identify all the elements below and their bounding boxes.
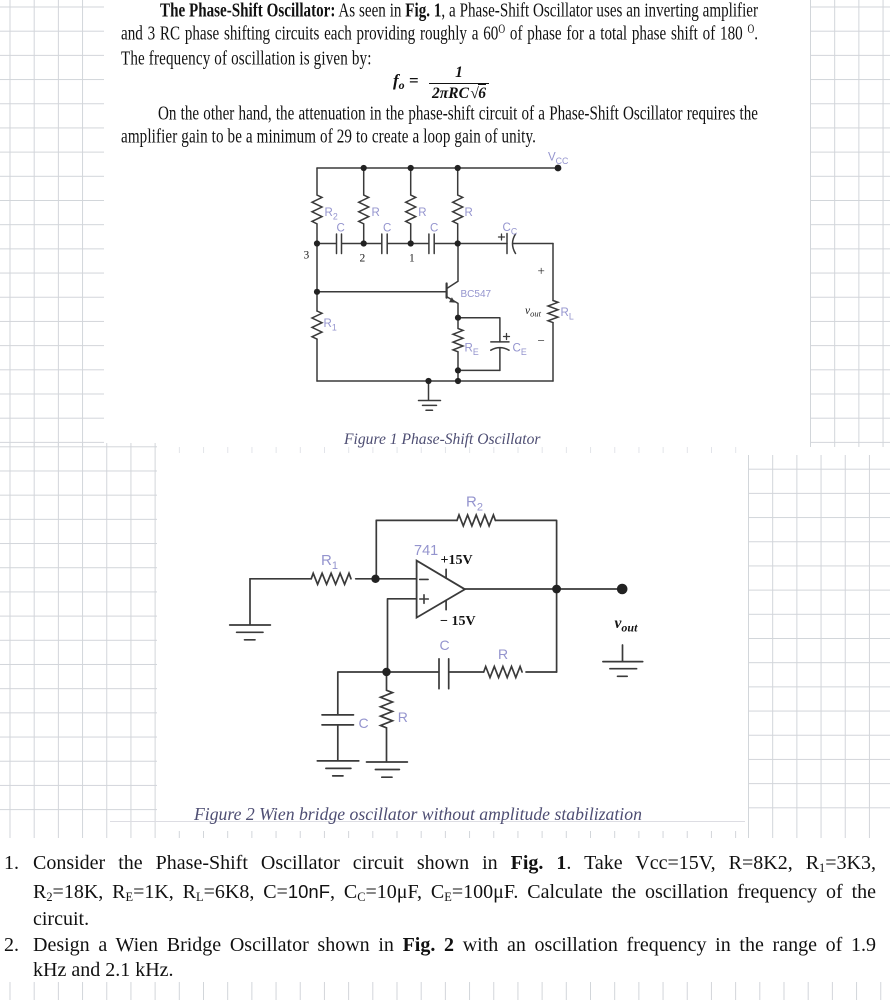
resistor R (branch 0) — [453, 168, 463, 244]
resistor R2 — [312, 168, 322, 244]
ground under C — [317, 761, 359, 776]
svg-text:−: − — [538, 333, 545, 348]
node dot top 0 — [455, 165, 461, 171]
graph paper: bottom tick band — [0, 982, 890, 1000]
resistor R1 — [312, 311, 322, 339]
graph paper: mid-left — [0, 443, 157, 831]
node dot inverting — [371, 575, 379, 583]
svg-text:R1: R1 — [324, 318, 337, 333]
node dot RE bottom — [455, 367, 461, 373]
wire base — [317, 291, 446, 293]
node dot output end — [617, 584, 628, 595]
svg-text:R: R — [372, 207, 380, 219]
faint tick row between pieces — [160, 447, 748, 453]
node dot bottom — [382, 668, 390, 676]
wire inverting input — [356, 578, 417, 580]
svg-text:2: 2 — [360, 253, 366, 265]
node dot output — [552, 585, 561, 594]
wire left branch — [316, 244, 318, 312]
svg-text:BC547: BC547 — [461, 289, 492, 300]
wire cap to node — [387, 671, 439, 673]
svg-text:CE: CE — [513, 343, 527, 358]
figure 2 caption — [194, 804, 642, 825]
plus sign of CE — [504, 334, 510, 340]
svg-text:C: C — [359, 715, 369, 731]
graph paper: mid-right — [748, 455, 890, 831]
node dot top 1 — [408, 165, 414, 171]
svg-text:R: R — [498, 646, 508, 662]
svg-text:C: C — [430, 223, 438, 235]
wire node left — [338, 672, 387, 715]
capacitor C parallel — [322, 715, 354, 725]
resistor R series — [484, 667, 522, 678]
wire right branch lower — [552, 323, 554, 381]
bottom rail wire — [317, 380, 553, 382]
svg-text:R: R — [398, 709, 408, 725]
node dot base — [314, 289, 320, 295]
svg-text:CC: CC — [503, 222, 518, 237]
figure 1 caption — [344, 431, 541, 449]
wire left branch lower — [316, 339, 318, 381]
wire C to ground — [337, 725, 339, 761]
capacitor C series — [439, 659, 449, 689]
wire node row — [317, 243, 507, 245]
ground output — [603, 645, 643, 676]
resistor R1 — [311, 573, 351, 584]
node dot 1 — [408, 240, 414, 246]
svg-text:R: R — [418, 207, 426, 219]
capacitor C (right) — [429, 234, 434, 254]
svg-text:RE: RE — [465, 343, 479, 358]
node dot emitter — [455, 315, 461, 321]
svg-text:+15V: +15V — [441, 553, 473, 568]
capacitor CE — [491, 342, 509, 371]
wire noninverting input — [388, 599, 417, 672]
svg-text:R: R — [465, 207, 473, 219]
node dot ground rail — [425, 378, 431, 384]
ground under R — [367, 762, 408, 777]
node dot 2 — [361, 240, 367, 246]
svg-text:R2: R2 — [325, 207, 338, 222]
svg-text:1: 1 — [409, 253, 415, 265]
wire feedback top left — [376, 519, 457, 521]
node dot 3 — [314, 240, 320, 246]
op-amp U1 741 — [417, 561, 465, 618]
minus sign input — [420, 578, 428, 580]
resistor R (branch 2) — [359, 168, 369, 244]
tick row above bottom text — [0, 831, 748, 838]
capacitor CC — [507, 234, 553, 254]
wire series R right — [526, 671, 557, 673]
resistor R vertical — [381, 672, 393, 762]
svg-text:C: C — [337, 223, 345, 235]
svg-text:vout: vout — [525, 305, 542, 319]
wire RE bottom — [458, 370, 500, 381]
plus sign of CC — [499, 234, 505, 240]
wire input left — [250, 578, 311, 580]
svg-text:C: C — [440, 637, 450, 653]
resistor R (branch 1) — [406, 168, 416, 244]
power stub -15V — [445, 600, 447, 610]
graph paper: top-left — [0, 0, 104, 447]
wire feedback left vertical — [375, 520, 377, 578]
transistor emitter arrow — [449, 297, 455, 302]
node dot top 2 — [361, 165, 367, 171]
graph paper: top-right — [810, 0, 890, 447]
resistor R2 — [457, 515, 495, 526]
svg-text:vout: vout — [615, 615, 639, 635]
power stub +15V — [445, 569, 447, 578]
bottom numbered items — [0, 851, 890, 984]
faint fig2 piece bottom edge — [110, 821, 745, 822]
svg-text:741: 741 — [414, 543, 438, 559]
wire feedback top right — [495, 520, 556, 589]
svg-text:VCC: VCC — [548, 152, 569, 167]
ground input — [230, 579, 271, 640]
capacitor C (mid) — [382, 234, 387, 254]
wire cap to resistor — [449, 671, 484, 673]
wire right branch — [552, 244, 554, 301]
plus sign input — [420, 595, 429, 604]
resistor RL — [548, 301, 558, 323]
Vcc rail wire — [317, 167, 558, 169]
capacitor C (left) — [337, 234, 342, 254]
node dot collector — [455, 240, 461, 246]
node dot Vcc — [555, 165, 562, 172]
svg-text:R1: R1 — [321, 552, 338, 572]
top paragraph — [121, 2, 758, 73]
transistor Q1 BC547 — [446, 284, 448, 298]
formula f_o = 1/(2piRC sqrt6) — [392, 61, 394, 63]
svg-text:C: C — [383, 223, 391, 235]
wire output — [465, 588, 622, 590]
FIGURE 1 SVG — [296, 148, 588, 420]
wire output down — [556, 589, 558, 672]
svg-text:3: 3 — [304, 250, 310, 262]
resistor RE — [453, 318, 463, 371]
ground — [419, 381, 441, 410]
wire emitter to CE — [458, 318, 500, 342]
svg-text:+: + — [538, 263, 545, 278]
FIGURE 2 SVG — [220, 485, 650, 785]
node dot emitter rail — [455, 378, 461, 384]
svg-text:− 15V: − 15V — [440, 614, 476, 629]
svg-text:RL: RL — [561, 307, 574, 322]
svg-text:R2: R2 — [466, 494, 483, 514]
